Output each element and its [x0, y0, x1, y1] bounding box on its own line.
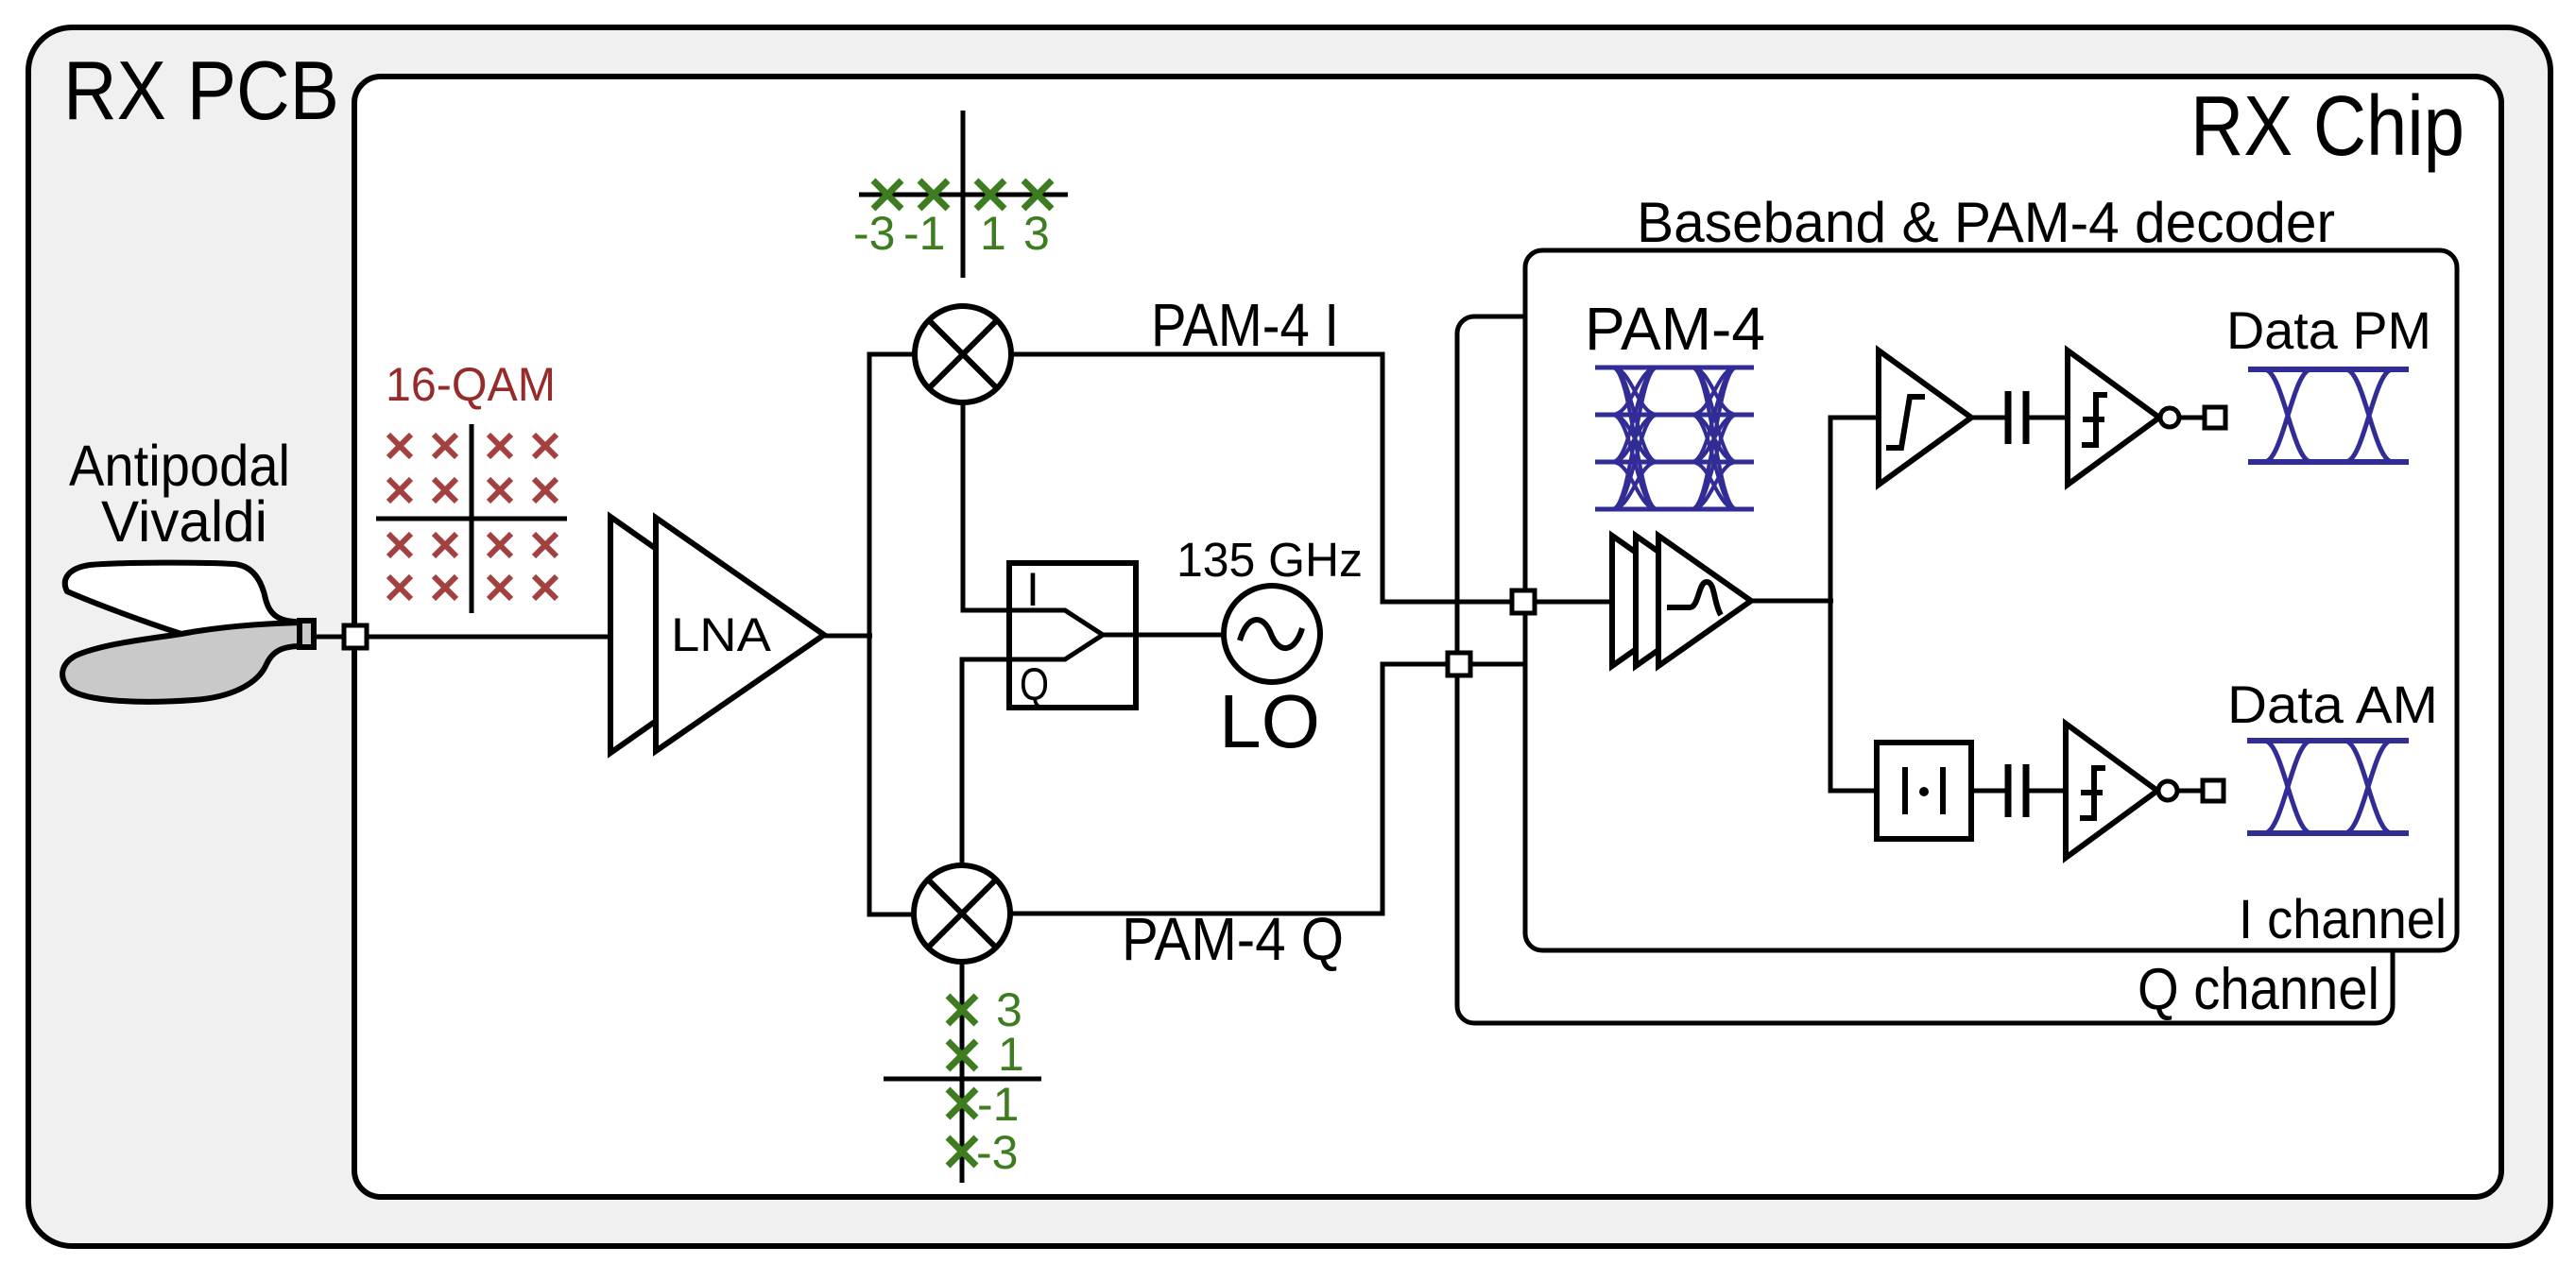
wire upper mixer to I pin: [1013, 354, 1523, 602]
capacitor C2: [2008, 764, 2026, 817]
16-QAM constellation points: [388, 435, 411, 457]
limiting amp 3 (schmitt): [2066, 724, 2157, 858]
LO oscillator U-LO: [1224, 586, 1320, 682]
wire cap2 to amp3: [2029, 789, 2068, 794]
wire lower mixer LO port: [962, 659, 1009, 865]
output port AM: [2203, 780, 2224, 801]
absolute value block: [1877, 743, 1971, 839]
RX Chip outline: [354, 77, 2501, 1197]
capacitor C1: [2008, 391, 2026, 444]
limiting amp 2 (schmitt): [2068, 350, 2159, 485]
schmitt symbol 2: [2080, 768, 2105, 818]
wire lower mixer to Q pin: [1010, 664, 1523, 914]
svg-text:135 GHz: 135 GHz: [1176, 533, 1363, 587]
mixer upper (I): [915, 306, 1011, 402]
slew symbol: [1886, 397, 1925, 448]
mixer lower (Q): [914, 865, 1010, 962]
svg-text:Antipodal: Antipodal: [69, 434, 290, 498]
PAM-4 eye diagram: [1595, 366, 1754, 370]
svg-text:16-QAM: 16-QAM: [386, 358, 556, 411]
wire amp1 to cap1: [1971, 416, 2005, 420]
svg-text:1: 1: [998, 1028, 1024, 1081]
wire bubble1 to port1: [2179, 416, 2206, 420]
chip input node: [344, 625, 367, 648]
PAM-4 Q constellation points: [948, 996, 976, 1024]
wire abs to cap2: [1971, 789, 2005, 794]
svg-text:3: 3: [1023, 207, 1050, 260]
svg-text:1: 1: [980, 207, 1006, 260]
antenna feed: [300, 621, 314, 647]
schmitt symbol: [2082, 395, 2107, 445]
antipodal Vivaldi antenna bottom petal: [62, 623, 301, 702]
wire split riser: [1830, 418, 1879, 791]
svg-text:Vivaldi: Vivaldi: [101, 489, 267, 554]
inverter bubble 1: [2160, 408, 2179, 427]
wire VGA to split: [1751, 599, 1833, 604]
svg-text:PAM-4 Q: PAM-4 Q: [1122, 905, 1344, 973]
Q channel input pin: [1448, 653, 1470, 675]
svg-text:-1: -1: [903, 207, 945, 260]
wire LNA output: [824, 634, 872, 639]
svg-text:Q channel: Q channel: [2138, 957, 2379, 1022]
svg-text:PAM-4 I: PAM-4 I: [1151, 291, 1339, 359]
wire bubble2 to port2: [2177, 789, 2204, 794]
Data AM eye diagram: [2247, 741, 2409, 833]
svg-text:LNA: LNA: [671, 608, 772, 661]
svg-text:-3: -3: [853, 207, 895, 260]
svg-text:Data PM: Data PM: [2226, 300, 2431, 360]
antipodal Vivaldi antenna top petal: [65, 563, 301, 634]
VGA gain curve symbol: [1667, 582, 1721, 615]
PAM-4 Q constellation axes: [884, 962, 1041, 1183]
svg-text:RX PCB: RX PCB: [63, 43, 339, 137]
limiting amp 1 (slew): [1879, 350, 1971, 485]
wire riser between mixers: [869, 354, 916, 914]
svg-text:LO: LO: [1219, 679, 1320, 763]
svg-text:-3: -3: [976, 1126, 1018, 1179]
LNA amplifier front triangle: [656, 518, 824, 751]
LNA amplifier back triangle: [610, 517, 779, 753]
output port PM: [2205, 407, 2225, 428]
I/Q hybrid combiner chevron: [1012, 610, 1103, 659]
svg-text:PAM-4: PAM-4: [1585, 295, 1765, 363]
I channel input pin: [1512, 590, 1535, 613]
VGA amplifier chain: [1612, 536, 1705, 666]
wire I pin to VGA: [1535, 600, 1614, 605]
Q channel decoder box: [1457, 316, 2393, 1023]
16-QAM axes: [376, 424, 567, 613]
svg-text:RX Chip: RX Chip: [2190, 79, 2464, 174]
I/Q hybrid box: [1009, 563, 1136, 708]
svg-text:Data AM: Data AM: [2227, 675, 2438, 734]
svg-text:I channel: I channel: [2239, 889, 2447, 950]
wire antenna to LNA: [313, 635, 612, 640]
I channel decoder box: [1525, 250, 2457, 950]
wire upper mixer LO port: [963, 404, 1009, 610]
PAM-4 I constellation points: [873, 180, 902, 209]
svg-text:Baseband & PAM-4 decoder: Baseband & PAM-4 decoder: [1637, 191, 2335, 254]
svg-text:-1: -1: [977, 1078, 1019, 1131]
Data PM eye diagram: [2248, 369, 2409, 462]
PAM-4 I constellation axes: [859, 111, 1068, 278]
wire hybrid to LO: [1103, 633, 1224, 638]
svg-text:Q: Q: [1020, 660, 1049, 710]
inverter bubble 2: [2158, 781, 2177, 800]
svg-text:I: I: [1026, 563, 1039, 616]
wire cap1 to amp2: [2029, 416, 2069, 420]
